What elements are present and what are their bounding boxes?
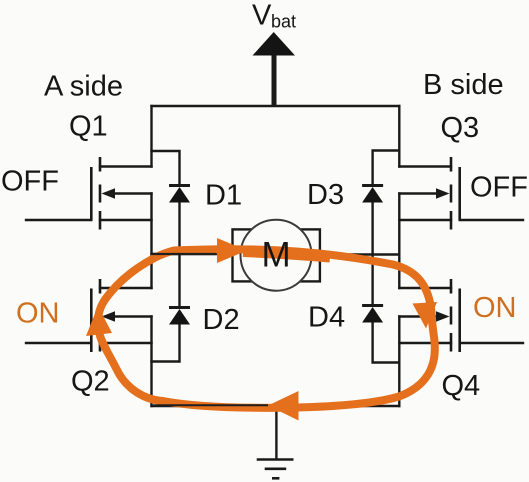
wire A-side output node (Q1 body/source down to Q2 drain)	[150, 194, 152, 289]
wire motor left lead	[152, 253, 233, 255]
wire D2 anode jog	[152, 325, 180, 362]
diode D4	[362, 306, 383, 323]
svg-text:ON: ON	[473, 292, 517, 324]
current arrow along ground rail (bottom)	[268, 391, 299, 421]
svg-text:D1: D1	[205, 180, 242, 212]
current arrow down through Q4 (right)	[413, 302, 438, 329]
wire Q4 body/source to bottom rail	[398, 317, 400, 407]
wire Q2 body/source to bottom rail	[150, 317, 152, 407]
wire right rail upper (Vbat to Q3 drain)	[398, 106, 400, 167]
wire ground stem	[275, 406, 277, 458]
wire B-side output node (Q3 body/source down to Q4 drain)	[398, 194, 400, 289]
wire branch to D3	[373, 151, 400, 184]
svg-text:D2: D2	[203, 304, 240, 336]
transistor Q3 (high-side B, OFF)	[399, 157, 523, 230]
wire motor right lead	[320, 253, 399, 255]
transistor Q2 (low-side A, ON)	[26, 279, 152, 352]
current arrow into motor (top)	[217, 238, 247, 263]
svg-text:A side: A side	[44, 70, 123, 102]
svg-text:D3: D3	[307, 179, 344, 211]
wire left rail upper (Vbat to Q1 drain)	[150, 106, 152, 167]
current arrow up through Q2 (left)	[86, 306, 112, 336]
svg-text:M: M	[262, 236, 291, 275]
svg-text:D4: D4	[308, 302, 345, 334]
wire motor left lead visible over loop	[152, 253, 216, 255]
svg-text:ON: ON	[16, 298, 60, 330]
wire bottom rail visible over current loop	[153, 404, 268, 406]
svg-text:Q4: Q4	[442, 370, 481, 402]
transistor Q1 (high-side A, OFF)	[26, 157, 152, 230]
svg-text:B side: B side	[423, 69, 504, 101]
power Vbat arrow symbol	[253, 32, 296, 106]
svg-text:Q3: Q3	[441, 112, 480, 144]
svg-text:OFF: OFF	[470, 172, 528, 204]
svg-text:V: V	[252, 0, 272, 32]
ground symbol	[257, 460, 294, 479]
transistor Q4 (low-side B, ON)	[399, 279, 523, 352]
label Vbat	[252, 0, 296, 32]
svg-text:Q2: Q2	[71, 366, 110, 398]
wire top rail	[152, 105, 400, 107]
wire branch to D1	[152, 151, 180, 184]
wire D3 anode to D4 cathode	[371, 203, 373, 304]
svg-text:bat: bat	[271, 12, 296, 32]
current loop (orange recirculation path)	[98, 249, 435, 408]
wire D1 anode to D2 cathode	[178, 203, 180, 306]
current loop thick run through motor	[243, 252, 330, 258]
motor M1	[233, 220, 320, 291]
diode D2	[169, 308, 190, 325]
diode D3	[362, 186, 383, 203]
wire bottom rail	[152, 405, 400, 407]
wire D4 anode jog	[373, 323, 400, 363]
svg-text:OFF: OFF	[1, 166, 59, 198]
svg-text:Q1: Q1	[69, 111, 108, 143]
diode D1	[169, 186, 190, 203]
